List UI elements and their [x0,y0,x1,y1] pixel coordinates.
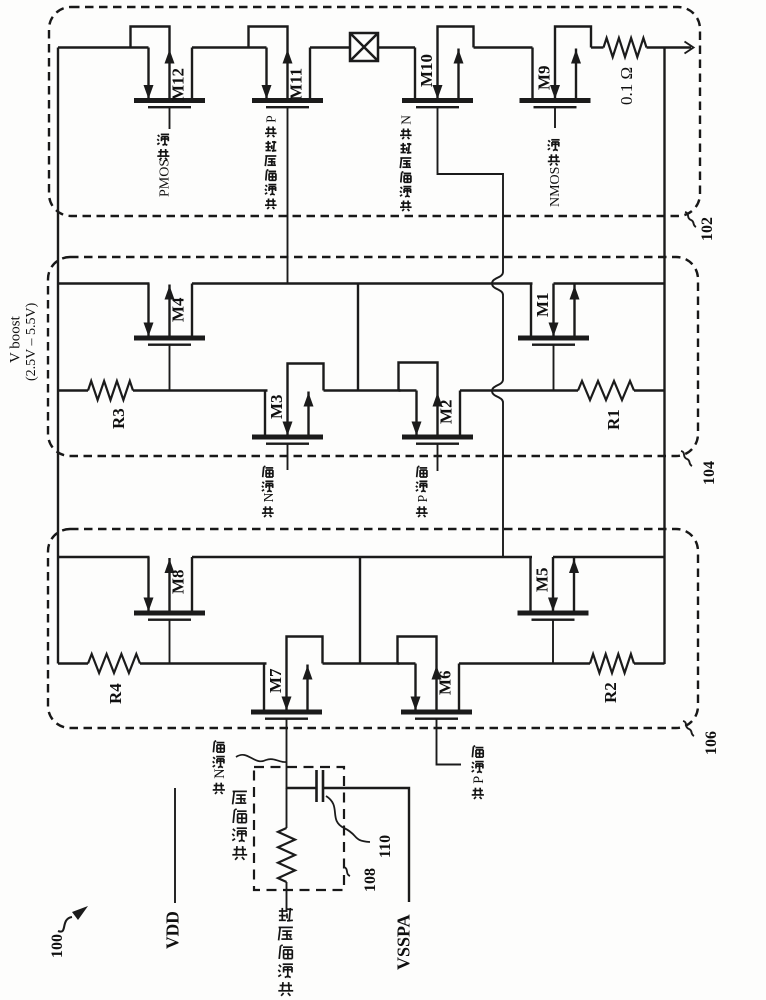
svg-text:N: N [399,115,414,125]
svg-text:0.1 Ω: 0.1 Ω [617,67,636,105]
wire [140,662,267,664]
wire rail 106 [58,556,150,558]
svg-text:M4: M4 [169,297,188,322]
wire [192,46,249,48]
svg-text:V boost: V boost [7,315,23,363]
svg-text:100: 100 [49,934,66,958]
svg-text:M11: M11 [287,68,306,100]
label low N bias (gate of M3) [263,508,273,510]
svg-text:R2: R2 [601,682,620,703]
transistor M10 [402,27,474,109]
svg-text:M1: M1 [533,292,552,317]
svg-text:N: N [212,768,228,778]
resistor R4 [88,654,140,673]
wire [323,662,400,664]
label filter bank [234,849,246,851]
transistor M3 [252,364,324,471]
svg-text:R4: R4 [106,683,125,704]
svg-text:102: 102 [699,217,716,241]
transistor M5 [518,557,589,664]
svg-text:106: 106 [703,731,720,755]
svg-text:M8: M8 [169,569,188,594]
wire left VDD rail [57,48,59,664]
transistor M8 [134,557,205,664]
wire gate of M10 jog down to rail 106 with hops [438,106,504,557]
svg-text:M7: M7 [266,668,285,693]
leader high N bias [236,755,286,762]
transistor M12 [131,27,206,130]
wire filter node horizontal [287,787,317,789]
svg-text:VSSPA: VSSPA [393,914,413,970]
svg-text:M5: M5 [533,567,552,592]
svg-text:104: 104 [701,461,718,485]
svg-text:M9: M9 [535,65,554,90]
svg-text:(2.5V – 5.5V): (2.5V – 5.5V) [24,302,39,381]
label cascode bias N (gate of M10) [401,202,411,204]
label VDD lead [174,788,176,903]
svg-text:P: P [471,776,487,784]
wire R3 left lead [58,389,88,391]
dashed block box 104 (V boost stage) [48,257,698,456]
dashed filter box 108 [254,767,344,890]
wire gate of M11 down to rail 104 [287,106,289,284]
transistor M6 [398,637,473,720]
wire [634,662,665,664]
transistor M4 [134,284,205,391]
wire rail 106 mid [192,556,532,558]
capacitor C 110 plates [315,770,318,802]
resistor filter (vertical) [278,828,295,882]
wire to output [647,46,692,48]
svg-text:M10: M10 [417,54,436,87]
svg-text:M2: M2 [437,399,456,424]
label high P bias (gate of M6) [473,790,483,792]
wire rail 104 right [554,282,665,284]
wire rail 104 mid [192,282,533,284]
svg-text:M3: M3 [267,394,286,419]
label 110 leader [326,796,370,842]
transistor M1 [518,284,589,391]
wire output feedback right rail [663,48,665,665]
svg-text:M6: M6 [436,670,455,695]
wire [459,662,590,664]
wire rail 106 right [553,556,665,558]
svg-text:N: N [261,492,276,502]
resistor R2 [590,654,634,673]
transistor M11 [249,27,324,109]
dashed block box 102 (output driver stage) [49,7,700,216]
svg-text:VDD: VDD [162,911,182,949]
wire [591,46,604,48]
label 102 leader [685,212,696,227]
crossed-square symbol X1 [350,33,378,61]
svg-text:M12: M12 [169,68,188,101]
transistor M2 [399,363,474,472]
svg-text:NMOS: NMOS [548,167,563,207]
wire [460,389,578,391]
svg-text:R1: R1 [604,409,623,430]
wire R4 left lead [58,662,88,664]
svg-text:110: 110 [377,835,394,858]
resistor R3 [88,381,133,400]
wire [378,46,415,48]
wire [634,389,665,391]
label 104 leader [681,451,692,466]
label low P bias (gate of M2) [417,508,427,510]
label 100 arrow [58,917,72,932]
wire rail 104 [58,282,150,284]
label 108 leader [344,867,350,876]
label high N bias (gate of M7) [214,785,224,787]
wire [58,46,131,48]
svg-text:P: P [264,115,279,122]
wire gate of M6 elbow stub [437,718,462,765]
transistor M7 [251,637,323,720]
resistor R1 [578,381,634,400]
svg-text:PMOS: PMOS [157,159,172,197]
wire gate of M7 down to filter [286,718,288,790]
wire [133,389,268,391]
svg-text:P: P [415,494,430,502]
node vertical rail-to-wire [357,284,359,391]
svg-text:108: 108 [362,868,379,892]
resistor 0.1 ohm [604,38,647,57]
output arrow [685,42,694,54]
wire [324,389,401,391]
transistor M9 [520,27,592,129]
wire [474,46,533,48]
node vertical rail-to-wire 106 [359,557,361,664]
svg-text:R3: R3 [109,408,128,429]
label cascode bias P (gate of M11) [266,200,276,202]
wire [310,46,350,48]
label 106 leader [683,721,694,736]
wire capacitor to VSSPA [323,788,409,902]
wire [286,788,288,828]
label bias generator [280,985,292,987]
wire [286,882,288,912]
dashed block box 106 (high-bias stage) [48,529,698,728]
